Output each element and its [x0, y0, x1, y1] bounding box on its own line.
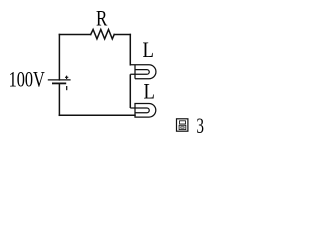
svg-text:L: L [143, 37, 154, 62]
battery short negative plate [52, 82, 66, 84]
inductor L2 [130, 104, 155, 118]
battery long positive plate [48, 79, 71, 81]
wire: left vertical from battery bottom plate down to bottom wire [58, 83, 60, 115]
caption figure character 圖 (drawn) [177, 119, 188, 131]
L2 outer loop [135, 104, 156, 118]
wire: bottom horizontal [59, 114, 135, 116]
wire: vertical between inductor 1 and inductor 2 [129, 74, 131, 108]
wire: left vertical from top wire down to battery top plate [58, 35, 60, 80]
svg-text:L: L [144, 79, 155, 104]
L1 outer loop [130, 65, 156, 79]
minus polarity tick [66, 86, 68, 90]
inductor L1 [130, 65, 156, 79]
plus polarity mark [65, 76, 68, 79]
battery V1 100V [48, 76, 71, 91]
wire: right vertical from top wire down to inductor 1 [129, 35, 131, 65]
L1 outer loop left edge [134, 65, 136, 79]
wire: top-left horizontal segment [59, 34, 90, 36]
svg-text:100V: 100V [9, 66, 45, 91]
L1 inner loop [130, 70, 149, 75]
resistor R1 zigzag [91, 30, 115, 39]
svg-text:R: R [96, 6, 107, 31]
svg-text:3: 3 [196, 113, 204, 138]
L2 inner loop [130, 108, 149, 113]
wire: top-right horizontal segment [114, 34, 130, 36]
